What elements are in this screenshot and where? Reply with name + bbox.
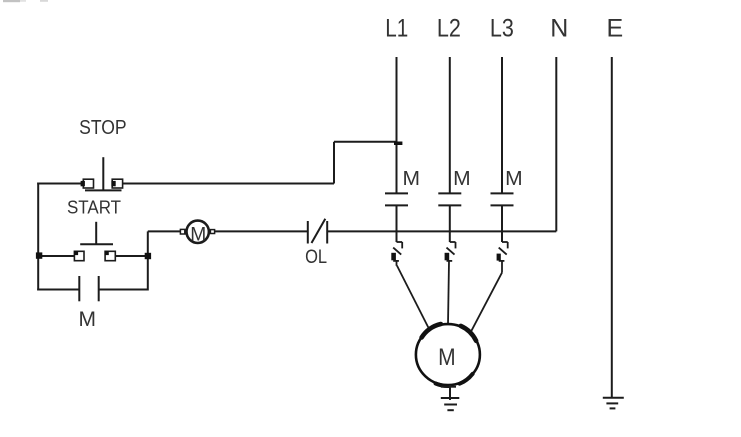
svg-text:M: M	[505, 167, 522, 190]
svg-text:E: E	[607, 14, 624, 42]
svg-text:OL: OL	[305, 246, 327, 268]
svg-text:STOP: STOP	[79, 117, 127, 139]
svg-text:M: M	[438, 344, 456, 371]
svg-text:M: M	[190, 224, 206, 245]
svg-text:START: START	[67, 197, 121, 217]
svg-text:M: M	[453, 167, 471, 190]
svg-text:M: M	[403, 167, 421, 190]
svg-text:N: N	[550, 14, 568, 42]
svg-text:L1: L1	[385, 14, 408, 42]
svg-text:L3: L3	[490, 14, 514, 42]
svg-text:L2: L2	[437, 14, 461, 42]
svg-text:M: M	[78, 307, 96, 331]
